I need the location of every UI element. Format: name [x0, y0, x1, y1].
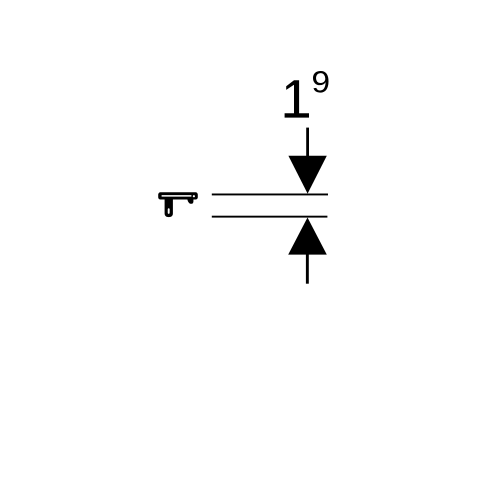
- tool icon: hanging tab under right end: [187, 199, 193, 204]
- tool icon: vertical leg: [165, 198, 173, 217]
- arrowhead pointing down: [288, 156, 326, 194]
- superscript 9 (digit drawn as path): [313, 71, 329, 93]
- tool icon: highlight line in bar: [162, 195, 192, 197]
- upper horizontal line: [212, 194, 328, 196]
- tool icon: horizontal bar: [158, 192, 198, 199]
- leader line upper (vertical): [306, 128, 309, 157]
- tool icon: highlight dot near right end: [193, 195, 195, 197]
- tool icon: highlight line in leg: [168, 209, 170, 213]
- leader line lower (vertical): [306, 254, 309, 283]
- lower horizontal line: [212, 216, 328, 218]
- arrowhead pointing up: [288, 218, 327, 255]
- callout label 1 (digit drawn as path): [285, 80, 309, 117]
